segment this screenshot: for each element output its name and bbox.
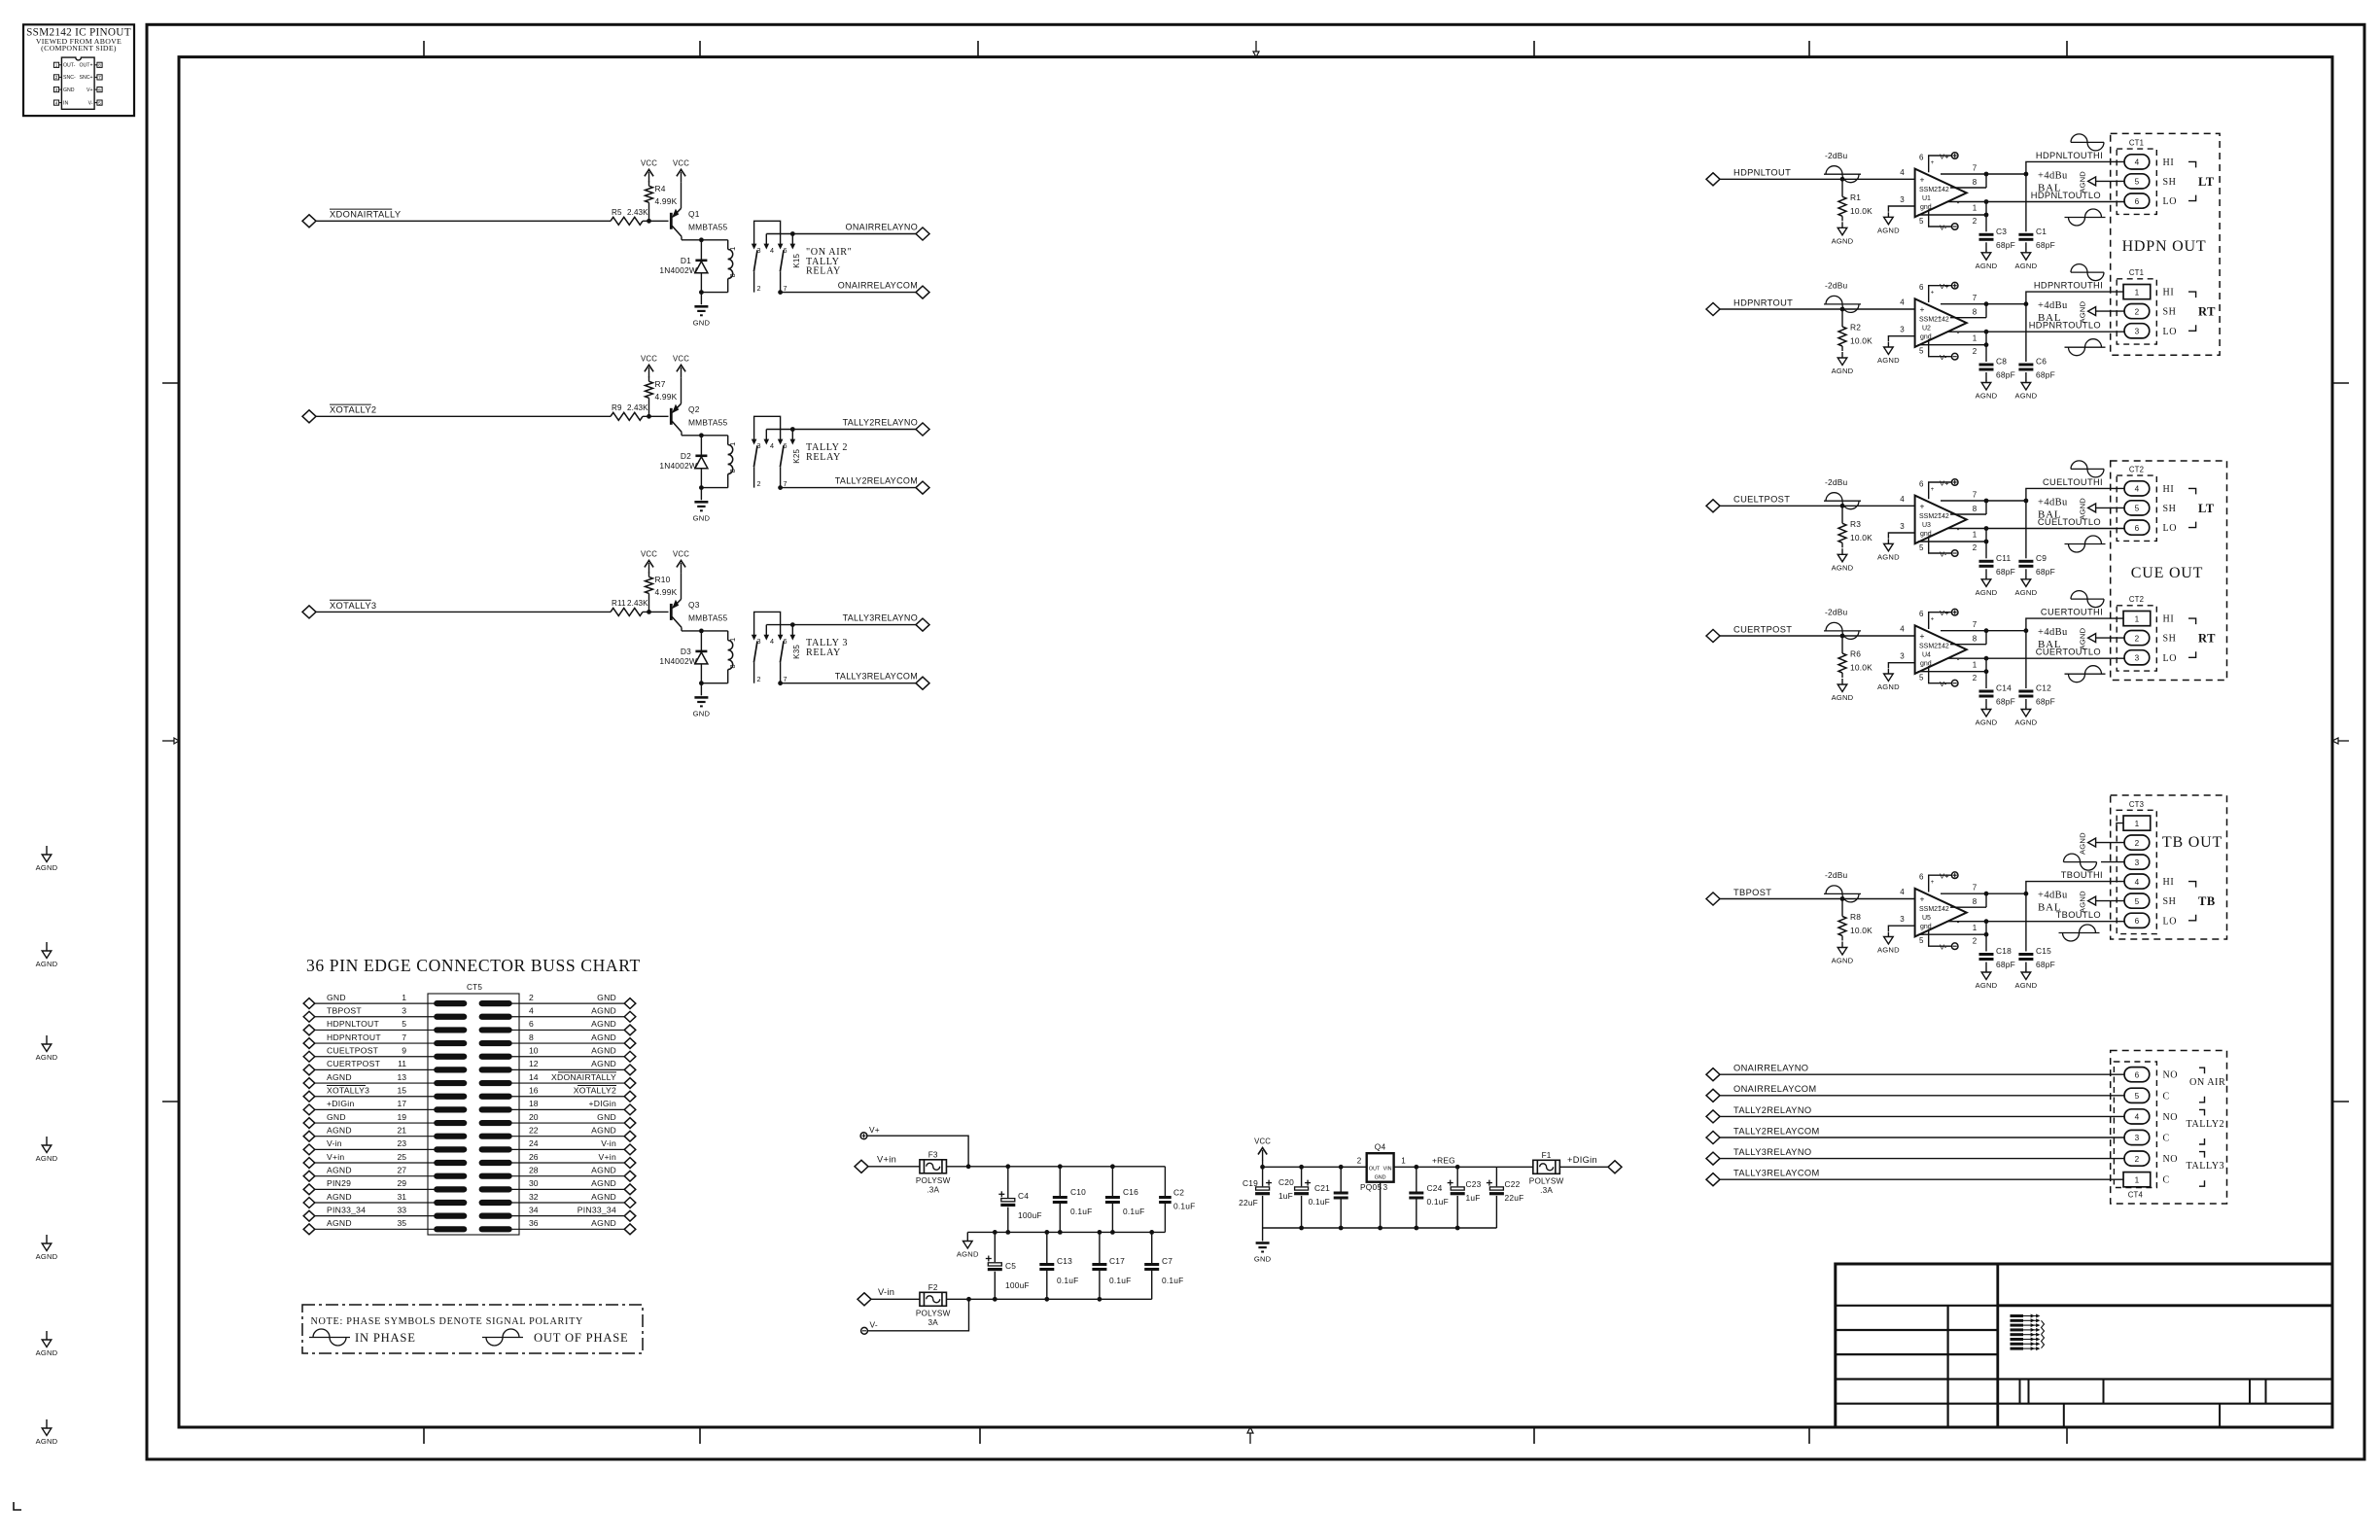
svg-text:R1: R1 [1850, 192, 1861, 202]
svg-text:U2: U2 [1922, 326, 1931, 332]
svg-text:U5: U5 [1922, 915, 1931, 922]
capacitor C1 68pF [2025, 174, 2027, 231]
svg-text:Q4: Q4 [1375, 1141, 1386, 1151]
svg-text:SH: SH [2163, 504, 2177, 514]
svg-text:68pF: 68pF [1996, 697, 2015, 707]
connector CT1 pin 4 (HI) [2124, 155, 2150, 169]
svg-text:-2dBu: -2dBu [1825, 281, 1847, 291]
capacitor C10 0.1uF [1058, 1164, 1063, 1169]
svg-text:SSM2142: SSM2142 [1919, 513, 1949, 520]
svg-text:TALLY3: TALLY3 [2187, 1161, 2225, 1172]
svg-text:0.1uF: 0.1uF [1162, 1276, 1183, 1285]
wire ONAIRRELAYNO to CT4 [1720, 1073, 2124, 1075]
svg-text:5: 5 [1919, 217, 1924, 226]
input port V-in [857, 1293, 871, 1306]
CT5 pin 35 AGND [303, 1224, 315, 1235]
svg-text:gnd: gnd [1920, 924, 1932, 930]
pin 6 V+ of U3 [1929, 482, 1952, 499]
svg-text:0.1uF: 0.1uF [1123, 1207, 1144, 1216]
connector CT2 dashed box [2117, 475, 2156, 541]
svg-text:HDPN OUT: HDPN OUT [2122, 238, 2207, 255]
input port V+in [855, 1160, 868, 1172]
margin AGND symbol 2 [46, 942, 48, 951]
svg-text:0.1uF: 0.1uF [1427, 1197, 1449, 1207]
svg-text:2: 2 [1973, 217, 1977, 226]
svg-text:3: 3 [402, 1006, 406, 1016]
svg-text:6: 6 [98, 87, 101, 92]
dashed group box HDPN OUT [2111, 133, 2220, 355]
svg-text:IN: IN [63, 100, 68, 106]
svg-text:SSM2142: SSM2142 [1919, 187, 1949, 193]
relay contact tie loop K35 [754, 612, 781, 638]
svg-text:+DIGin: +DIGin [327, 1099, 355, 1108]
svg-text:8: 8 [98, 63, 101, 68]
CT5 pin 8 AGND [479, 1040, 511, 1045]
note out-of-phase symbol [482, 1337, 523, 1339]
svg-text:R7: R7 [655, 379, 666, 389]
svg-text:2: 2 [757, 284, 761, 293]
svg-text:5: 5 [2135, 897, 2140, 906]
svg-text:6: 6 [2135, 197, 2140, 206]
wire HDPNLTOUTHI [1986, 173, 2026, 175]
connector CT3 pin 5 (SH) [2124, 893, 2150, 908]
border zone tick marks right [2332, 382, 2349, 384]
wire ONAIRRELAYNO [792, 233, 916, 235]
CT5 pin 3 TBPOST [303, 1011, 315, 1022]
svg-text:1N4002W: 1N4002W [659, 656, 697, 666]
svg-text:AGND: AGND [591, 1165, 616, 1174]
svg-text:13: 13 [397, 1072, 406, 1082]
CT5 pin 25 V+in [303, 1158, 315, 1169]
SSM2142 IC pinout legend box [23, 24, 134, 116]
output port TALLY2RELAYNO [916, 423, 929, 436]
ground GND [700, 293, 702, 305]
capacitor C23 1uF [1456, 1167, 1458, 1186]
svg-text:7: 7 [784, 284, 787, 293]
svg-text:V+: V+ [87, 87, 93, 93]
input port XOTALLY3 [302, 606, 316, 618]
svg-text:V-: V- [88, 100, 93, 106]
svg-text:XOTALLY3: XOTALLY3 [327, 1086, 369, 1096]
margin AGND symbol 1 [46, 846, 48, 855]
note in-phase symbol [309, 1337, 350, 1339]
input port XOTALLY2 [302, 410, 316, 423]
svg-text:4.99K: 4.99K [655, 587, 678, 597]
svg-text:12: 12 [529, 1059, 539, 1068]
svg-text:+4dBu: +4dBu [2038, 170, 2068, 181]
phase symbol in-phase (input) [1824, 500, 1861, 502]
svg-text:22uF: 22uF [1239, 1198, 1258, 1207]
margin AGND symbol 7 [46, 1419, 48, 1428]
svg-text:4.99K: 4.99K [655, 196, 678, 206]
title block left column divider [1946, 1306, 1948, 1427]
title block right row B dividers [2063, 1404, 2065, 1427]
bracket TALLY3 [2199, 1152, 2205, 1158]
svg-text:7: 7 [1973, 491, 1977, 500]
wire CUERTOUTLO [1986, 657, 2124, 659]
node base junction [647, 219, 651, 224]
wire collector node [682, 630, 728, 632]
svg-text:VCC: VCC [641, 158, 657, 167]
svg-text:2: 2 [1973, 936, 1977, 945]
svg-text:CUERTOUTHI: CUERTOUTHI [2041, 608, 2103, 617]
CT5 pin 12 AGND [479, 1067, 511, 1072]
relay contact blades K35 [753, 641, 757, 662]
connector CT1 pin 6 (LO) [2124, 193, 2150, 208]
wire ONAIRRELAYCOM [781, 292, 916, 294]
pin 1 of U1 [1947, 201, 1986, 203]
IC body with notch [61, 57, 94, 109]
svg-text:HI: HI [2163, 484, 2175, 495]
output port +DIGin [1608, 1161, 1622, 1173]
svg-text:R10: R10 [655, 575, 671, 584]
svg-text:+: + [1938, 185, 1942, 192]
power V- terminal input [861, 1327, 868, 1334]
svg-text:POLYSW: POLYSW [916, 1309, 951, 1317]
CT5 pin 5 HDPNLTOUT [303, 1025, 315, 1035]
svg-text:1: 1 [55, 63, 58, 68]
svg-text:TB: TB [2198, 894, 2216, 908]
svg-text:68pF: 68pF [2036, 697, 2055, 707]
svg-text:AGND: AGND [1832, 957, 1854, 965]
svg-text:+4dBu: +4dBu [2038, 627, 2068, 638]
svg-text:2: 2 [2135, 634, 2140, 643]
input port HDPNLTOUT [1706, 173, 1720, 186]
svg-text:28: 28 [529, 1165, 539, 1174]
wire ONAIRRELAYCOM to CT4 [1720, 1095, 2124, 1097]
relay coil K25 [727, 436, 729, 445]
svg-text:GND: GND [693, 709, 711, 717]
input port ONAIRRELAYNO [1706, 1068, 1720, 1081]
svg-text:2: 2 [1357, 1157, 1362, 1166]
svg-text:2: 2 [2135, 1155, 2140, 1164]
svg-text:MMBTA55: MMBTA55 [688, 418, 727, 428]
CT5 pin 2 GND [479, 1001, 511, 1006]
svg-text:RELAY: RELAY [806, 452, 841, 463]
connector CT4 pin 5 [2124, 1088, 2150, 1102]
wire resistor to base node [643, 611, 669, 612]
svg-text:5: 5 [1919, 674, 1924, 682]
svg-text:C21: C21 [1314, 1183, 1330, 1193]
svg-text:4: 4 [2135, 878, 2140, 887]
svg-text:2.43K: 2.43K [627, 403, 648, 412]
capacitor C8 68pF [1985, 345, 1987, 362]
resistor R7 4.99K pull-up [648, 398, 650, 416]
capacitor C13 0.1uF [1046, 1232, 1048, 1264]
svg-text:(COMPONENT SIDE): (COMPONENT SIDE) [41, 44, 117, 52]
svg-text:TALLY2RELAYCOM: TALLY2RELAYCOM [1733, 1126, 1820, 1136]
title block right row A dividers [2019, 1380, 2021, 1404]
phase symbol in-phase (input) [1824, 303, 1861, 305]
svg-text:6: 6 [1919, 153, 1924, 161]
svg-text:AGND: AGND [36, 1252, 58, 1261]
svg-text:10.0K: 10.0K [1850, 926, 1872, 935]
CT5 pin 14 XDONAIRTALLY [479, 1080, 511, 1085]
svg-text:ON AIR: ON AIR [2189, 1077, 2225, 1088]
svg-text:CT1: CT1 [2129, 139, 2144, 148]
diode D2 1N4002W [700, 436, 702, 456]
svg-text:7: 7 [784, 479, 787, 488]
pin 5 V- of U4 [1929, 666, 1952, 683]
border center arrow right [2337, 740, 2349, 742]
analog ground AGND (shield) [2088, 177, 2096, 186]
svg-text:+4dBu: +4dBu [2038, 891, 2068, 901]
svg-text:BAL: BAL [2038, 182, 2061, 193]
analog ground AGND (C18) [1985, 970, 1987, 972]
svg-text:CUERTPOST: CUERTPOST [1733, 624, 1792, 634]
IC pin 6 (V+) [97, 87, 102, 92]
svg-text:HI: HI [2163, 614, 2175, 625]
svg-text:10.0K: 10.0K [1850, 533, 1872, 542]
svg-text:GND: GND [693, 318, 711, 327]
svg-text:TALLY2RELAYNO: TALLY2RELAYNO [843, 417, 918, 427]
input port TALLY2RELAYNO [1706, 1110, 1720, 1123]
wire coil bottom to ground node [701, 487, 727, 489]
svg-text:6: 6 [529, 1019, 534, 1029]
svg-text:26: 26 [529, 1152, 539, 1162]
phase symbol in-phase (input) [1824, 173, 1861, 175]
svg-text:GND: GND [1254, 1255, 1272, 1264]
svg-text:U3: U3 [1922, 522, 1931, 529]
svg-text:GND: GND [597, 1112, 616, 1122]
wire CUELTOUTLO [1986, 528, 2124, 530]
svg-text:R2: R2 [1850, 323, 1861, 332]
svg-text:-2dBu: -2dBu [1825, 870, 1847, 880]
svg-text:5: 5 [98, 100, 101, 105]
svg-text:35: 35 [397, 1218, 406, 1228]
capacitor C12 68pF [2025, 631, 2027, 688]
svg-text:AGND: AGND [327, 1072, 352, 1082]
svg-text:TALLY3RELAYNO: TALLY3RELAYNO [1733, 1147, 1812, 1157]
svg-text:AGND: AGND [1976, 981, 1998, 990]
capacitor C19 22uF [1262, 1167, 1264, 1186]
power VCC arrow (pull-up) [645, 169, 653, 176]
svg-text:ONAIRRELAYCOM: ONAIRRELAYCOM [838, 280, 918, 290]
svg-text:V-: V- [870, 1320, 878, 1330]
svg-text:2: 2 [757, 675, 761, 683]
pin 2 of U3 [1918, 541, 1986, 542]
svg-text:+DIGin: +DIGin [1567, 1155, 1597, 1165]
svg-text:CT2: CT2 [2129, 595, 2144, 604]
margin AGND symbol 3 [46, 1035, 48, 1044]
svg-text:1N4002W: 1N4002W [659, 265, 697, 275]
svg-text:RELAY: RELAY [806, 647, 841, 658]
svg-text:HDPNLTOUT: HDPNLTOUT [327, 1019, 379, 1029]
wire collector node [682, 435, 728, 437]
svg-text:7: 7 [402, 1032, 406, 1042]
CT5 pin 28 AGND [479, 1173, 511, 1178]
svg-text:AGND: AGND [591, 1006, 616, 1016]
svg-text:F1: F1 [1542, 1151, 1552, 1160]
border center arrow top [1255, 41, 1257, 54]
pin 6 V+ of U4 [1929, 612, 1952, 629]
phase symbol in-phase (HI out) [2071, 468, 2104, 470]
svg-text:R3: R3 [1850, 519, 1861, 529]
wire CUERTPOST to U4 input [1720, 635, 1915, 637]
svg-text:GND: GND [63, 87, 75, 93]
pin 3 gnd of U5 [1888, 926, 1914, 931]
wire HDPNLTOUTLO [1986, 201, 2124, 203]
wire AGND shield to connector [2095, 180, 2124, 182]
svg-text:100uF: 100uF [1018, 1210, 1042, 1220]
wire V-in to fuse F2 [871, 1298, 920, 1300]
svg-text:C8: C8 [1996, 357, 2007, 367]
svg-text:V+: V+ [1940, 152, 1949, 160]
svg-text:4: 4 [770, 637, 774, 646]
svg-text:SSM2142: SSM2142 [1919, 644, 1949, 650]
svg-text:AGND: AGND [36, 1053, 58, 1062]
svg-text:AGND: AGND [1832, 236, 1854, 245]
bracket TALLY2 [2199, 1109, 2205, 1115]
svg-text:31: 31 [397, 1192, 406, 1202]
op-amp U1 SSM2142 line driver [1915, 169, 1967, 218]
wire XDONAIRTALLY to base resistor [316, 220, 611, 222]
svg-text:C14: C14 [1996, 683, 2012, 693]
svg-text:AGND: AGND [2079, 498, 2087, 520]
svg-text:U4: U4 [1922, 652, 1931, 659]
analog ground AGND (mid rail) [966, 1232, 968, 1240]
svg-text:AGND: AGND [1832, 693, 1854, 702]
input port ONAIRRELAYCOM [1706, 1089, 1720, 1102]
svg-text:5: 5 [1919, 936, 1924, 945]
svg-text:K35: K35 [792, 645, 801, 659]
svg-text:8: 8 [728, 273, 737, 277]
wire TALLY2RELAYCOM [781, 487, 916, 489]
svg-text:TB OUT: TB OUT [2162, 834, 2222, 851]
svg-text:1uF: 1uF [1466, 1193, 1481, 1203]
svg-text:D1: D1 [681, 256, 691, 265]
pin 5 V- of U3 [1929, 536, 1952, 553]
CT5 pin 33 PIN33_34 [303, 1210, 315, 1221]
connector CT2 pin 6 (LO) [2124, 520, 2150, 535]
svg-text:HDPNRTOUT: HDPNRTOUT [1733, 297, 1793, 307]
svg-text:32: 32 [529, 1192, 539, 1202]
svg-text:6: 6 [784, 637, 787, 646]
svg-text:C4: C4 [1018, 1191, 1029, 1201]
bracket LT (CUE) [2188, 488, 2196, 494]
power V+ terminal [1951, 282, 1958, 289]
capacitor C14 68pF [1985, 672, 1987, 688]
svg-text:LO: LO [2163, 196, 2178, 207]
svg-text:+4dBu: +4dBu [2038, 300, 2068, 311]
relay contact NO stubs K15 [766, 233, 792, 235]
svg-text:LO: LO [2163, 327, 2178, 337]
svg-text:BAL: BAL [2038, 639, 2061, 650]
svg-text:C22: C22 [1505, 1179, 1521, 1189]
phase symbol in-phase (HI out) [2071, 598, 2104, 600]
pin 5 V- of U5 [1929, 929, 1952, 947]
svg-text:VIN: VIN [1383, 1166, 1392, 1172]
svg-text:8: 8 [1973, 178, 1977, 187]
svg-text:5: 5 [402, 1019, 406, 1029]
svg-text:1: 1 [2135, 820, 2140, 828]
svg-text:8: 8 [1973, 897, 1977, 906]
svg-text:HDPNRTOUTHI: HDPNRTOUTHI [2034, 281, 2103, 291]
svg-text:C13: C13 [1057, 1256, 1072, 1266]
wire CUELTOUTHI [1986, 500, 2026, 502]
svg-text:AGND: AGND [36, 863, 58, 872]
svg-text:+: + [1938, 315, 1942, 322]
svg-text:VCC: VCC [673, 354, 689, 363]
svg-text:V+in: V+in [599, 1152, 616, 1162]
input port HDPNRTOUT [1706, 302, 1720, 315]
svg-text:AGND: AGND [1877, 552, 1900, 561]
svg-text:V-in: V-in [601, 1138, 616, 1148]
capacitor C20 1uF [1301, 1167, 1303, 1186]
pin 5 V- of U2 [1929, 339, 1952, 357]
wire collector node [682, 239, 728, 241]
IC pin 7 (SNC+) [97, 75, 102, 80]
phase symbol out-of-phase (LO out) [2065, 543, 2106, 545]
connector CT3 pin 2 (AGND) [2124, 835, 2150, 850]
relay coil K15 [727, 240, 729, 250]
dashed group box relay outputs [2111, 1051, 2227, 1205]
svg-text:2: 2 [529, 993, 534, 1002]
bracket RT (HDPN) [2188, 292, 2196, 297]
svg-text:V-: V- [1940, 943, 1947, 952]
border zone tick marks left [162, 382, 179, 384]
svg-text:PIN33_34: PIN33_34 [327, 1205, 366, 1214]
svg-text:AGND: AGND [1976, 262, 1998, 270]
svg-text:3: 3 [1900, 522, 1905, 531]
connector CT2 dashed box [2117, 606, 2156, 671]
svg-text:5: 5 [2135, 1092, 2140, 1101]
bracket ON AIR [2199, 1067, 2205, 1073]
svg-text:V-: V- [1940, 223, 1947, 231]
svg-text:1: 1 [1973, 531, 1977, 540]
capacitor C21 0.1uF [1340, 1167, 1342, 1193]
svg-text:HDPNLTOUTHI: HDPNLTOUTHI [2036, 151, 2103, 160]
svg-text:C24: C24 [1427, 1183, 1443, 1193]
svg-text:3: 3 [2135, 1134, 2140, 1142]
svg-text:AGND: AGND [1976, 718, 1998, 727]
wire HDPNLTOUT to U1 input [1720, 178, 1915, 180]
svg-text:OUT-: OUT- [63, 63, 76, 69]
svg-text:LT: LT [2198, 175, 2215, 189]
svg-text:+: + [1938, 904, 1942, 911]
svg-text:D3: D3 [681, 647, 691, 656]
CT5 pin 18 +DIGin [479, 1107, 511, 1112]
capacitor C5 100uF [994, 1232, 996, 1262]
svg-text:AGND: AGND [591, 1192, 616, 1202]
svg-text:PIN29: PIN29 [327, 1178, 351, 1188]
wire TALLY3RELAYCOM to CT4 [1720, 1178, 2124, 1180]
svg-text:7: 7 [784, 675, 787, 683]
capacitor C7 0.1uF [1151, 1232, 1153, 1264]
svg-text:1: 1 [728, 247, 737, 251]
svg-text:NO: NO [2163, 1154, 2178, 1165]
svg-text:AGND: AGND [2079, 627, 2087, 649]
svg-text:HI: HI [2163, 288, 2175, 298]
svg-text:AGND: AGND [327, 1192, 352, 1202]
svg-text:22: 22 [529, 1126, 539, 1136]
svg-text:SNC+: SNC+ [80, 75, 93, 81]
power V- terminal [1951, 680, 1958, 686]
svg-text:C: C [2163, 1134, 2170, 1144]
svg-text:V+in: V+in [327, 1152, 344, 1162]
CT5 pin 26 V+in [479, 1160, 511, 1165]
pin 7 of U4 [1941, 630, 1986, 632]
svg-text:+: + [1920, 894, 1925, 904]
svg-text:LO: LO [2163, 653, 2178, 664]
svg-text:5: 5 [2135, 178, 2140, 187]
svg-text:AGND: AGND [1832, 563, 1854, 572]
svg-text:V-: V- [1940, 353, 1947, 362]
svg-text:C19: C19 [1242, 1178, 1258, 1188]
svg-text:F2: F2 [928, 1283, 938, 1292]
wire TBPOST to U5 input [1720, 898, 1915, 900]
title block right row line B [1998, 1403, 2332, 1405]
